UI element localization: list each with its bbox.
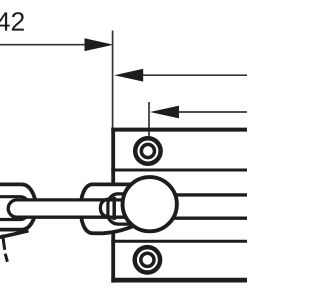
- dimension line 2: [141, 74, 247, 76]
- body slot top line: [160, 193, 247, 196]
- arrowhead dim1 right: [85, 38, 114, 51]
- body left edge: [111, 128, 115, 283]
- pin big circle: [123, 177, 177, 231]
- arrowhead dim3 left: [150, 106, 179, 119]
- chain link C outer (right, side view): [81, 184, 157, 233]
- top hole outer ring: [135, 138, 160, 163]
- body divider line A: [111, 169, 247, 172]
- body bottom edge: [111, 278, 247, 283]
- chain link A outer (left, side view): [0, 184, 36, 229]
- chain link A0 tilted edge (next link behind): [0, 231, 29, 238]
- chain centerline dash 1: [3, 235, 5, 250]
- chain link A hole: [0, 197, 30, 220]
- svg-text:42: 42: [0, 7, 25, 37]
- extension line 1: [112, 31, 114, 128]
- body top edge: [111, 128, 247, 132]
- chain link B bar (long link, edge view): [8, 200, 127, 217]
- chain link C hole left end redraw: [108, 194, 118, 224]
- arrowhead dim2 left: [114, 69, 143, 82]
- chain link B right cap / link C near wire crossing: [112, 197, 116, 220]
- dimension line 3: [177, 111, 247, 113]
- chain link D left cap arc: [100, 199, 110, 217]
- top hole inner ring: [141, 144, 154, 157]
- bottom hole inner ring: [141, 253, 154, 266]
- body divider line B: [111, 240, 247, 243]
- extension line 2: [148, 102, 150, 137]
- chain centerline dash 2: [5, 254, 7, 262]
- body slot bottom line: [160, 216, 247, 219]
- dimension line 1 (42): [0, 44, 88, 46]
- chain link C hole: [108, 194, 150, 224]
- bottom hole outer ring: [135, 247, 160, 272]
